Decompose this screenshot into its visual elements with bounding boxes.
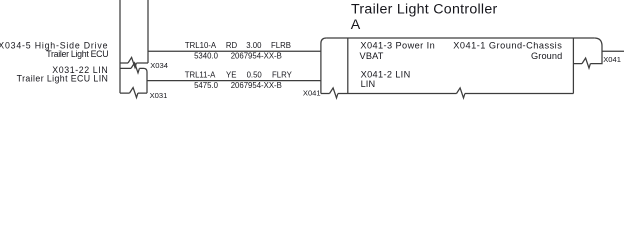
svg-text:X041-1 Ground-Chassis: X041-1 Ground-Chassis	[453, 41, 562, 51]
svg-text:X041: X041	[603, 55, 621, 64]
svg-text:5475.0: 5475.0	[194, 81, 219, 90]
wire break on bottom edge at left tab	[330, 88, 338, 98]
svg-text:TRL10-A: TRL10-A	[185, 41, 217, 50]
svg-text:X041-3 Power In: X041-3 Power In	[360, 41, 435, 51]
controller U2 left connector tab X041 edge	[321, 38, 327, 94]
svg-text:2067954-XX-B: 2067954-XX-B	[231, 52, 282, 61]
svg-text:FLRY: FLRY	[272, 71, 293, 80]
connector X034 section outline	[120, 0, 148, 63]
wire break on X031 section top edge	[131, 63, 139, 73]
svg-text:YE: YE	[226, 71, 236, 80]
svg-text:VBAT: VBAT	[360, 51, 384, 61]
svg-text:X041-2 LIN: X041-2 LIN	[361, 70, 411, 80]
controller U2 box right edge	[572, 38, 574, 94]
ECU U1 Trailer Light ECU box left edge	[119, 0, 121, 93]
svg-text:FLRB: FLRB	[271, 41, 291, 50]
connector X031 section outline	[120, 68, 147, 93]
svg-text:Trailer Light ECU LIN: Trailer Light ECU LIN	[17, 74, 109, 84]
svg-text:3.00: 3.00	[246, 41, 262, 50]
wire break on bottom edge center	[457, 88, 465, 98]
wire break on X034 section bottom edge	[128, 57, 136, 67]
svg-text:Ground: Ground	[531, 51, 562, 61]
svg-text:Trailer Light Controller: Trailer Light Controller	[351, 2, 498, 18]
svg-text:X041: X041	[303, 88, 321, 97]
wire TRL11-A from X031-22 to X041-2	[147, 80, 321, 82]
controller U2 pin column separator	[347, 38, 349, 94]
wire break on right tab bottom edge	[582, 58, 590, 68]
controller U2 box top edge	[326, 37, 594, 39]
svg-text:X034: X034	[150, 61, 168, 70]
wire break on X031 section bottom edge	[130, 88, 138, 98]
right connector tab X041 outline	[573, 38, 602, 64]
svg-text:A: A	[351, 17, 361, 33]
svg-text:2067954-XX-B: 2067954-XX-B	[231, 81, 282, 90]
svg-text:TRL11-A: TRL11-A	[185, 71, 216, 80]
wire X041-1 to chassis ground	[602, 50, 624, 52]
svg-text:LIN: LIN	[361, 79, 376, 89]
svg-text:Trailer Light ECU: Trailer Light ECU	[46, 49, 108, 59]
svg-text:0.50: 0.50	[247, 71, 263, 80]
svg-text:5340.0: 5340.0	[194, 52, 219, 61]
controller U2 box bottom edge	[321, 93, 574, 95]
svg-text:X031: X031	[150, 91, 168, 100]
svg-text:RD: RD	[226, 41, 238, 50]
wire TRL10-A from X034-5 to X041-3	[148, 50, 321, 52]
